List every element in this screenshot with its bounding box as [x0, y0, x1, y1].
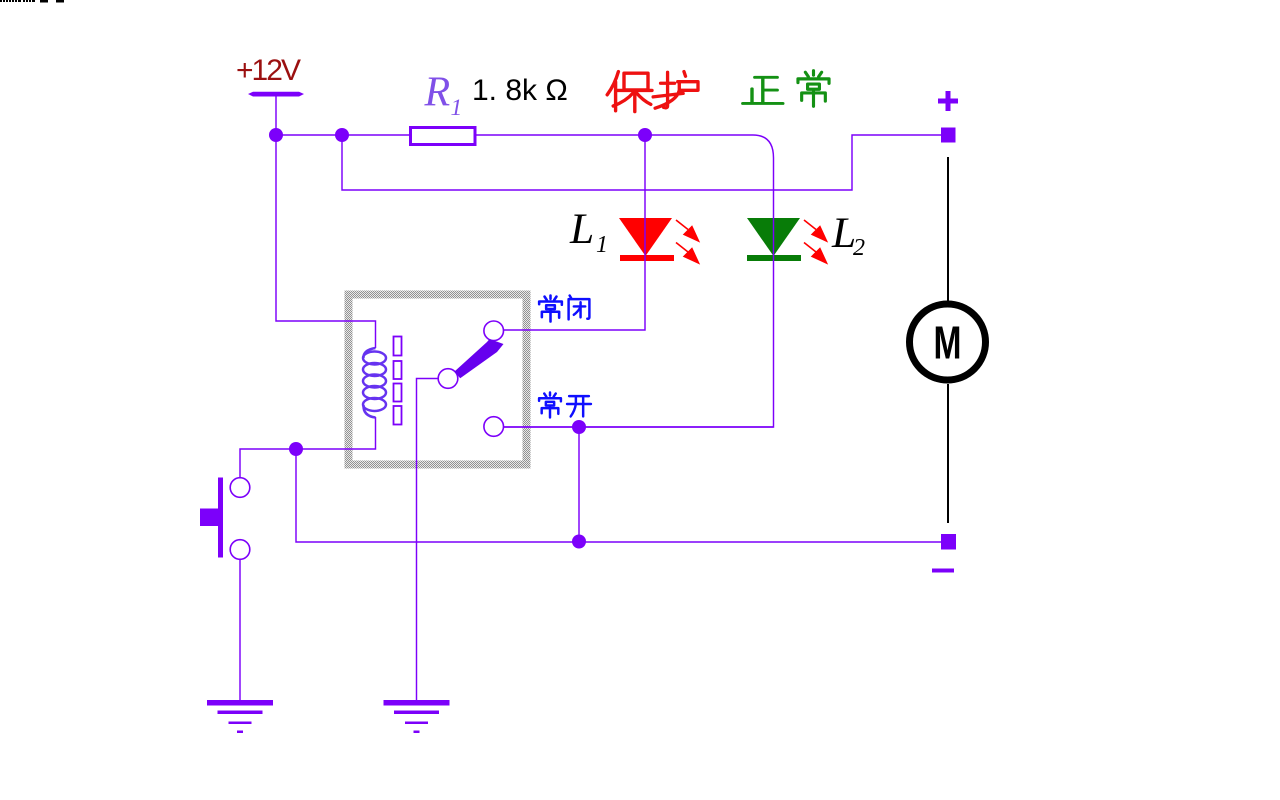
- terminal label — [932, 569, 954, 573]
svg-text:L: L — [569, 205, 594, 253]
label 常开 (blue) — [539, 393, 591, 418]
junction node (579,542) — [572, 535, 586, 549]
wire power bar to node A — [275, 96, 277, 135]
svg-text:M: M — [934, 317, 962, 368]
junction node (645,135) — [638, 128, 652, 142]
LED L1 light arrows — [676, 220, 699, 263]
svg-text:1. 8k Ω: 1. 8k Ω — [472, 74, 568, 107]
label 正常 (green) — [743, 71, 829, 107]
svg-text:R: R — [424, 70, 451, 116]
relay NO contact — [484, 417, 504, 437]
+ terminal label — [938, 91, 958, 111]
wire bypass rail via y=190 to + terminal — [342, 135, 941, 190]
junction node A (276,135) — [269, 128, 283, 142]
push button plunger — [200, 509, 218, 527]
clipped text fragments top-left corner — [0, 0, 64, 3]
wire top rail y=135 with curve into L2 branch — [276, 135, 774, 427]
svg-text:1: 1 — [451, 95, 463, 121]
ground 2 — [384, 700, 450, 733]
motor M — [910, 304, 986, 380]
relay K1 outline box — [349, 295, 527, 465]
push button top contact — [230, 478, 250, 498]
junction node (579,427) — [572, 420, 586, 434]
push button S1 — [200, 478, 250, 560]
resistor R1 — [411, 128, 476, 145]
wire NO contact row — [504, 426, 774, 428]
motor lead wire bottom (black) — [947, 384, 949, 523]
junction node (342,135) — [335, 128, 349, 142]
ground 1 — [207, 700, 273, 733]
wire node B down to bottom rail to - terminal — [296, 449, 941, 542]
svg-text:1: 1 — [596, 232, 608, 258]
power rail bar — [248, 92, 304, 97]
wire node A down to relay coil top — [276, 135, 376, 348]
wire coil bottom to node B — [296, 417, 376, 449]
LED L1 (red) — [619, 218, 699, 263]
push button bottom contact — [230, 540, 250, 560]
wire node B to push button — [240, 449, 296, 478]
svg-text:+12V: +12V — [236, 54, 301, 87]
svg-text:2: 2 — [853, 235, 865, 261]
wire relay common contact to ground 2 — [417, 379, 438, 702]
wire NO junction down to bottom rail — [578, 427, 580, 542]
relay core bars — [394, 337, 402, 425]
relay common contact — [438, 369, 458, 389]
LED L2 (green) — [747, 218, 827, 263]
junction node B (296,449) — [289, 442, 303, 456]
relay NC contact — [484, 321, 504, 341]
- terminal square — [941, 534, 956, 550]
motor lead wire top (black) — [947, 157, 949, 301]
wire push button bottom to ground 1 — [239, 559, 241, 701]
relay switch arm — [455, 339, 504, 378]
label 常闭 (blue) — [539, 296, 589, 322]
wire L1 branch down to NC contact — [504, 135, 646, 330]
+ terminal square — [941, 128, 956, 143]
LED L2 light arrows — [804, 220, 827, 263]
label 保护 (red) — [607, 72, 698, 112]
relay coil — [363, 348, 386, 418]
push button actuator bar — [218, 478, 223, 558]
